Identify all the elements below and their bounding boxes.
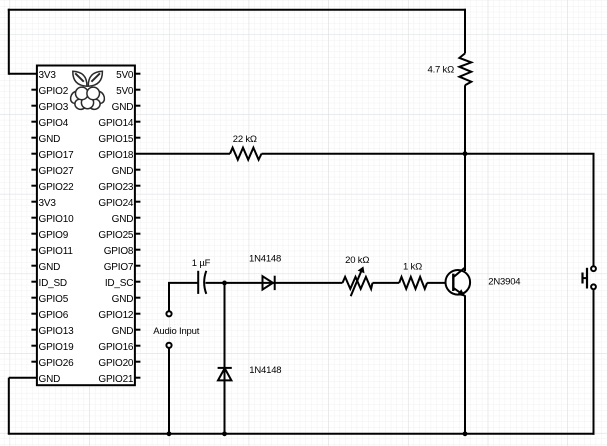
wire R1k to transistor base bbox=[427, 282, 452, 284]
pin stub right 14 ID_SC bbox=[135, 281, 141, 283]
svg-text:GPIO17: GPIO17 bbox=[39, 150, 75, 161]
svg-text:GPIO13: GPIO13 bbox=[39, 326, 75, 337]
svg-text:GPIO9: GPIO9 bbox=[39, 230, 69, 241]
wire GPIO18 to R 22k bbox=[135, 153, 230, 155]
svg-text:GPIO18: GPIO18 bbox=[98, 150, 134, 161]
junction node audio ground bbox=[167, 431, 172, 436]
pin stub right 7 GND bbox=[135, 169, 141, 171]
svg-text:GPIO19: GPIO19 bbox=[39, 342, 75, 353]
svg-text:GPIO7: GPIO7 bbox=[104, 262, 134, 273]
svg-text:GND: GND bbox=[112, 214, 134, 225]
audio input terminal top bbox=[166, 311, 171, 316]
junction node emitter ground bbox=[463, 431, 468, 436]
diode 1N4148 D2 cathode bar bbox=[218, 367, 232, 369]
svg-text:GND: GND bbox=[39, 374, 61, 385]
junction node capacitor/diodes bbox=[222, 281, 227, 286]
pin stub right 17 GND bbox=[135, 329, 141, 331]
pin stub left 16 GPIO6 bbox=[31, 313, 37, 315]
pin stub left 11 GPIO9 bbox=[31, 233, 37, 235]
pin stub left 2 GPIO2 bbox=[31, 89, 37, 91]
raspberry pi logo bbox=[69, 71, 107, 111]
pin stub right 5 GPIO15 bbox=[135, 137, 141, 139]
diode 1N4148 D1 triangle bbox=[263, 276, 273, 289]
svg-text:1 µF: 1 µF bbox=[192, 258, 211, 269]
svg-text:GPIO10: GPIO10 bbox=[39, 214, 75, 225]
wire left vertical bottom bbox=[8, 378, 10, 434]
wire audio bottom terminal to bottom rail bbox=[168, 348, 170, 434]
svg-text:Audio Input: Audio Input bbox=[153, 326, 199, 337]
transistor base bar bbox=[452, 274, 454, 291]
wire down to R 4.7k bbox=[464, 9, 466, 54]
resistor 22 kΩ bbox=[230, 148, 262, 160]
svg-text:1N4148: 1N4148 bbox=[249, 365, 281, 376]
pin stub right 15 GND bbox=[135, 297, 141, 299]
pin stub left 10 GPIO10 bbox=[31, 217, 37, 219]
svg-text:4.7 kΩ: 4.7 kΩ bbox=[428, 65, 455, 76]
svg-text:GPIO2: GPIO2 bbox=[39, 86, 69, 97]
svg-text:5V0: 5V0 bbox=[116, 86, 134, 97]
pin stub left 12 GPIO11 bbox=[31, 249, 37, 251]
svg-text:GPIO8: GPIO8 bbox=[104, 246, 134, 257]
svg-text:GND: GND bbox=[112, 166, 134, 177]
pin stub left 5 GND bbox=[31, 137, 37, 139]
pin stub right 11 GPIO25 bbox=[135, 233, 141, 235]
transistor emitter diagonal bbox=[453, 288, 465, 297]
svg-text:ID_SD: ID_SD bbox=[39, 278, 67, 289]
wire GND pin to left rail bbox=[9, 377, 37, 379]
pin stub left 6 GPIO17 bbox=[31, 153, 37, 155]
svg-text:GPIO11: GPIO11 bbox=[39, 246, 74, 257]
pin stub right 12 GPIO8 bbox=[135, 249, 141, 251]
pin stub left 13 GND bbox=[31, 265, 37, 267]
svg-text:20 kΩ: 20 kΩ bbox=[345, 255, 369, 266]
svg-text:GPIO24: GPIO24 bbox=[98, 198, 134, 209]
svg-text:1 kΩ: 1 kΩ bbox=[403, 262, 422, 273]
svg-text:22 kΩ: 22 kΩ bbox=[233, 134, 257, 145]
svg-text:GPIO26: GPIO26 bbox=[39, 358, 75, 369]
capacitor 1 µF plate left bbox=[197, 271, 199, 294]
junction node GPIO18/4.7k/collector bbox=[463, 151, 468, 156]
pin stub right 16 GPIO12 bbox=[135, 313, 141, 315]
svg-text:GPIO4: GPIO4 bbox=[39, 118, 69, 129]
svg-text:GPIO6: GPIO6 bbox=[39, 310, 69, 321]
resistor 4.7 kΩ bbox=[459, 53, 471, 85]
wire right vertical to button bbox=[593, 154, 595, 267]
svg-text:GPIO22: GPIO22 bbox=[39, 182, 75, 193]
pushbutton S1 cap bbox=[581, 273, 583, 284]
pushbutton S1 stem bbox=[583, 277, 588, 279]
svg-text:GPIO3: GPIO3 bbox=[39, 102, 69, 113]
svg-text:3V3: 3V3 bbox=[39, 198, 57, 209]
wire top horizontal bbox=[8, 9, 466, 11]
wire button to bottom rail bbox=[593, 289, 595, 435]
pin stub left 3 GPIO3 bbox=[31, 105, 37, 107]
wire R4.7k to junction bbox=[464, 85, 466, 155]
svg-text:ID_SC: ID_SC bbox=[105, 278, 133, 289]
resistor 1 kΩ bbox=[399, 277, 427, 289]
diode 1N4148 D1 cathode bar bbox=[274, 276, 276, 290]
svg-text:GPIO23: GPIO23 bbox=[98, 182, 134, 193]
wire collector vertical bbox=[464, 154, 466, 271]
svg-text:GND: GND bbox=[39, 262, 61, 273]
pushbutton S1 bottom contact bbox=[591, 284, 596, 289]
pin stub left 7 GPIO27 bbox=[31, 169, 37, 171]
pin stub right 19 GPIO20 bbox=[135, 361, 141, 363]
pin stub right 13 GPIO7 bbox=[135, 265, 141, 267]
pushbutton S1 bar bbox=[586, 268, 588, 289]
pin stub left 17 GPIO13 bbox=[31, 329, 37, 331]
wire pot to R 1k bbox=[373, 282, 400, 284]
wire emitter vertical bbox=[464, 296, 466, 434]
svg-text:GPIO14: GPIO14 bbox=[98, 118, 134, 129]
Raspberry Pi GPIO header box bbox=[37, 66, 135, 386]
svg-text:GND: GND bbox=[112, 326, 134, 337]
svg-text:GND: GND bbox=[112, 294, 134, 305]
pushbutton S1 top contact bbox=[591, 266, 596, 271]
transistor collector diagonal bbox=[453, 267, 465, 277]
pin stub right 3 GND bbox=[135, 105, 141, 107]
wire R22k to right corner bbox=[262, 153, 595, 155]
pin stub right 20 GPIO21 bbox=[135, 377, 141, 379]
potentiometer 20 kΩ wiper arrow bbox=[351, 270, 362, 297]
svg-text:GPIO15: GPIO15 bbox=[98, 134, 134, 145]
svg-text:GND: GND bbox=[112, 102, 134, 113]
svg-text:GPIO27: GPIO27 bbox=[39, 166, 75, 177]
pin stub left 18 GPIO19 bbox=[31, 345, 37, 347]
svg-text:GPIO21: GPIO21 bbox=[98, 374, 134, 385]
diode 1N4148 D2 triangle bbox=[218, 368, 231, 380]
junction node D2 ground bbox=[222, 431, 227, 436]
wire bottom rail bbox=[8, 433, 595, 435]
audio input terminal bottom bbox=[166, 343, 171, 348]
svg-text:GPIO25: GPIO25 bbox=[98, 230, 134, 241]
pin stub left 9 3V3 bbox=[31, 201, 37, 203]
wire audio top terminal to capacitor bbox=[169, 283, 198, 311]
pin stub left 19 GPIO26 bbox=[31, 361, 37, 363]
pin stub left 4 GPIO4 bbox=[31, 121, 37, 123]
wire left vertical top bbox=[8, 9, 10, 75]
svg-text:3V3: 3V3 bbox=[39, 70, 57, 81]
wire 3V3 pin to left rail bbox=[9, 73, 37, 75]
svg-text:GND: GND bbox=[39, 134, 61, 145]
pin stub left 8 GPIO22 bbox=[31, 185, 37, 187]
pin stub right 1 5V0 bbox=[135, 73, 141, 75]
transistor Q1 2N3904 circle bbox=[446, 270, 471, 295]
capacitor 1 µF plate right curved bbox=[204, 271, 206, 294]
svg-text:2N3904: 2N3904 bbox=[488, 276, 520, 287]
wire capacitor to potentiometer through D1 bbox=[206, 282, 343, 284]
svg-text:GPIO5: GPIO5 bbox=[39, 294, 69, 305]
svg-text:GPIO12: GPIO12 bbox=[98, 310, 134, 321]
pin stub left 14 ID_SD bbox=[31, 281, 37, 283]
wire junction through D2 to bottom rail bbox=[224, 283, 226, 434]
svg-text:GPIO16: GPIO16 bbox=[98, 342, 134, 353]
pin stub right 2 5V0 bbox=[135, 89, 141, 91]
pin stub right 8 GPIO23 bbox=[135, 185, 141, 187]
svg-text:GPIO20: GPIO20 bbox=[98, 358, 134, 369]
pin stub right 4 GPIO14 bbox=[135, 121, 141, 123]
pin stub left 15 GPIO5 bbox=[31, 297, 37, 299]
svg-text:5V0: 5V0 bbox=[116, 70, 134, 81]
svg-text:1N4148: 1N4148 bbox=[249, 253, 281, 264]
potentiometer 20 kΩ zigzag bbox=[343, 277, 373, 289]
pin stub right 18 GPIO16 bbox=[135, 345, 141, 347]
transistor emitter arrow bbox=[457, 289, 465, 296]
pin stub right 9 GPIO24 bbox=[135, 201, 141, 203]
pin stub right 10 GND bbox=[135, 217, 141, 219]
